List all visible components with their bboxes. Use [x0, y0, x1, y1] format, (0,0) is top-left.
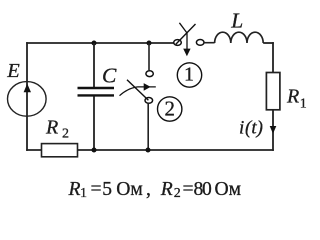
svg-text:1: 1	[80, 186, 87, 201]
svg-text:Ом: Ом	[215, 179, 242, 200]
svg-text:R: R	[286, 85, 299, 107]
switch SA2 upper contact	[146, 71, 153, 77]
wire switch2 lower lead	[147, 103, 149, 150]
resistor R1	[266, 73, 280, 110]
switch SA1 arrow to position 1	[183, 33, 190, 56]
wire right vertical	[272, 42, 274, 151]
svg-text:5: 5	[102, 179, 112, 200]
svg-text:80: 80	[194, 179, 212, 200]
svg-text:2: 2	[62, 126, 69, 141]
switch SA1 left contact	[174, 40, 182, 46]
wire switch1 to inductor	[204, 42, 215, 44]
svg-text:R: R	[68, 179, 81, 200]
source E symbol	[8, 82, 47, 117]
capacitor C plates	[78, 88, 115, 95]
node junction bottom capacitor	[92, 148, 97, 153]
node junction bottom switch2	[146, 148, 151, 153]
svg-text:1: 1	[300, 96, 307, 111]
wire inductor to corner	[263, 42, 274, 44]
svg-text:,: ,	[146, 179, 151, 200]
switch SA1 cross line	[179, 23, 187, 33]
wire bottom horizontal	[26, 149, 274, 151]
wire left vertical	[26, 42, 28, 151]
svg-text:C: C	[102, 64, 117, 88]
switch SA1 blade	[176, 24, 196, 44]
caption values	[68, 179, 242, 201]
svg-text:L: L	[230, 8, 243, 32]
svg-text:i: i	[239, 117, 244, 138]
wire capacitor upper lead	[93, 43, 95, 87]
switch SA2 lower contact	[145, 98, 153, 104]
position label circled 2	[158, 96, 182, 121]
switch SA2 arrow	[138, 83, 156, 91]
current arrow i(t)	[270, 126, 277, 134]
svg-text:=: =	[183, 179, 194, 200]
switch SA2 motion arc	[120, 87, 138, 96]
svg-text:1: 1	[184, 63, 194, 85]
inductor L	[215, 32, 264, 43]
position label circled 1	[177, 63, 201, 87]
svg-text:(t): (t)	[245, 117, 263, 138]
svg-text:2: 2	[174, 186, 181, 201]
svg-text:E: E	[6, 60, 20, 82]
wire capacitor lower lead	[93, 97, 95, 151]
switch SA2 blade	[127, 80, 148, 100]
wire switch2 upper lead	[148, 43, 150, 70]
switch SA1 right contact	[196, 40, 204, 46]
wire top horizontal	[26, 42, 174, 44]
svg-text:=: =	[91, 179, 102, 200]
resistor R2	[42, 144, 78, 157]
svg-text:Ом: Ом	[116, 179, 143, 200]
svg-text:R: R	[160, 179, 173, 200]
node junction top capacitor	[92, 41, 97, 46]
svg-text:2: 2	[165, 96, 176, 120]
node junction top switch2	[147, 41, 152, 46]
svg-text:R: R	[45, 117, 58, 139]
